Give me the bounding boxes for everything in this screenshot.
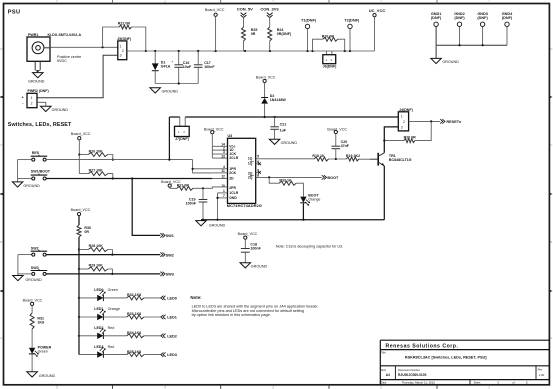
svg-text:of: of <box>512 381 515 385</box>
svg-text:J6(DNF): J6(DNF) <box>323 65 338 69</box>
wire J4 pin2 to RESETn <box>409 120 441 122</box>
svg-text:GROUND: GROUND <box>442 60 459 64</box>
wire TR1 collector to J4 pin3 <box>384 127 398 153</box>
svg-text:CON_5V: CON_5V <box>237 7 253 12</box>
wire 1Q to R18 <box>262 158 315 160</box>
ground symbol SW2 SW3 <box>13 276 42 282</box>
note body <box>192 305 319 317</box>
svg-text:47nF: 47nF <box>341 144 350 148</box>
svg-text:Title: Title <box>381 350 386 354</box>
svg-text:A4: A4 <box>386 373 390 377</box>
resistor R33 <box>127 315 144 319</box>
svg-text:Board_VCC: Board_VCC <box>238 232 258 236</box>
svg-text:100nF: 100nF <box>250 246 261 250</box>
resistor R29 10K <box>79 267 112 274</box>
wire U3 pin4 pin11 stubs <box>212 169 227 173</box>
svg-text:4: 4 <box>164 386 166 389</box>
svg-text:GF1A: GF1A <box>161 64 171 68</box>
test point T1 <box>301 17 317 51</box>
wire SW2 SW3 ground <box>17 255 19 276</box>
svg-text:1: 1 <box>31 96 33 100</box>
resistor R30 label <box>84 226 91 234</box>
capacitor C16 <box>174 51 183 84</box>
wire U3 1Q stub <box>256 158 262 160</box>
junction R29 on SW3 wire <box>111 273 113 275</box>
ground symbol below PWR1 <box>28 73 45 84</box>
net Board_VCC LED rail <box>71 208 91 225</box>
wire PSU ground bus <box>155 82 198 84</box>
capacitor C16 label <box>171 60 192 69</box>
svg-text:U3: U3 <box>228 134 233 138</box>
resistor R22 bypass loop <box>103 25 146 51</box>
svg-text:Date: Date <box>381 380 387 384</box>
svg-text:A: A <box>550 336 552 340</box>
title date <box>381 380 436 384</box>
net Board_VCC at R21 <box>161 180 181 188</box>
svg-text:RJU00JC089-0100: RJU00JC089-0100 <box>398 373 427 377</box>
wire U3 vcc bus stubs <box>212 146 227 158</box>
resistor R20 0R label <box>404 136 417 140</box>
diode D2 label <box>270 94 287 102</box>
capacitor C17 label <box>204 61 215 69</box>
svg-text:GROUND: GROUND <box>281 141 298 145</box>
resistor R25 <box>242 27 246 51</box>
svg-text:Orange: Orange <box>308 197 320 201</box>
svg-text:B: B <box>550 240 552 244</box>
led LED0 label <box>94 288 118 292</box>
junction C19 tap <box>202 187 204 189</box>
led LED3 label <box>94 345 114 349</box>
svg-text:SW1: SW1 <box>166 234 174 238</box>
svg-text:4: 4 <box>164 0 166 4</box>
wire LED1 to port <box>144 316 161 318</box>
resistor R19 2K2 <box>346 157 359 161</box>
ground symbol PSU <box>150 88 178 94</box>
svg-text:BC848CLT1G: BC848CLT1G <box>389 158 412 162</box>
svg-text:B: B <box>0 240 2 244</box>
net Board_VCC at C20 <box>327 127 347 146</box>
wire J7 pin1 stub <box>179 117 181 126</box>
svg-text:0R: 0R <box>251 32 256 36</box>
ground symbol C21 <box>269 139 297 145</box>
ic U3 right pin numbers <box>257 155 259 178</box>
wire logic ground rail <box>201 219 384 221</box>
led POWER label <box>38 346 52 354</box>
svg-text:2Q: 2Q <box>248 175 253 179</box>
wire SW2 net <box>46 254 160 256</box>
resistor R31 label <box>37 316 44 324</box>
title company <box>386 344 459 350</box>
off-page CON_3V3 <box>260 7 279 27</box>
led LED2 label <box>94 326 114 330</box>
net Board_VCC pullups RES SW1 <box>71 132 91 174</box>
resistor R35 label <box>127 350 141 354</box>
jumper J4 label <box>399 108 414 112</box>
svg-text:(DNF): (DNF) <box>502 16 513 20</box>
title block frame <box>380 340 549 385</box>
wire PWR2 pin2 to ground <box>37 102 46 106</box>
svg-text:by option link resistors in th: by option link resistors in this schemat… <box>192 313 271 317</box>
resistor R33 1K <box>279 181 296 185</box>
title rev label <box>538 367 545 376</box>
resistor R33 label <box>127 312 141 316</box>
wire R18 to R19 <box>329 158 347 160</box>
svg-text:SW1/BOOT: SW1/BOOT <box>31 170 51 174</box>
svg-text:2: 2 <box>403 120 405 124</box>
svg-text:Green: Green <box>38 349 48 353</box>
ic U3 left pin numbers <box>221 143 225 199</box>
wire RES to U3 1PR 2CK <box>192 160 213 173</box>
wire PWR1 to J5 pin1 <box>50 46 118 48</box>
title size label <box>381 368 390 377</box>
ground symbol logic rail <box>196 221 226 228</box>
svg-text:UC_VCC: UC_VCC <box>369 8 386 13</box>
svg-text:11: 11 <box>221 169 225 173</box>
resistor R32 <box>127 296 144 300</box>
svg-text:Size: Size <box>381 368 387 372</box>
svg-text:(DNF): (DNF) <box>454 16 465 20</box>
capacitor C20 <box>332 146 341 159</box>
resistor R26 0R loop <box>313 37 345 51</box>
connector PWR1 barrel jack <box>27 37 50 72</box>
jumper J5 <box>118 41 127 60</box>
wire U3 pin12 stub <box>212 178 227 180</box>
resistor R31 1K8 <box>30 313 34 329</box>
resistor R24 label <box>277 28 292 36</box>
wire switches ground left <box>17 160 19 182</box>
junction R28 on SW2 wire <box>111 254 113 256</box>
svg-text:3: 3 <box>272 0 274 4</box>
svg-text:GROUND: GROUND <box>251 265 268 269</box>
svg-text:1CLR: 1CLR <box>229 191 238 195</box>
wire GND bus <box>436 44 507 46</box>
svg-text:A: A <box>0 336 2 340</box>
resistor R30 0R <box>77 225 81 237</box>
resistor R24 <box>268 27 272 51</box>
resistor R21 0R label <box>177 184 190 188</box>
svg-text:5: 5 <box>56 386 58 389</box>
switch SW3 <box>18 269 47 275</box>
svg-text:Switches, LEDs, RESET: Switches, LEDs, RESET <box>8 122 72 128</box>
ground symbol switches RES <box>12 182 40 188</box>
resistor R18 1K label <box>312 154 325 158</box>
svg-text:C21: C21 <box>280 122 287 126</box>
off-page CON_5V <box>237 7 253 27</box>
ic U3 output q-bar overlines <box>250 162 254 176</box>
svg-text:100nF: 100nF <box>204 65 215 69</box>
note heading <box>190 295 202 300</box>
wire LED3 to resistor <box>103 354 126 356</box>
resistor R26 10K <box>79 153 113 160</box>
led LED0 <box>79 291 105 302</box>
resistor R20 0R <box>384 139 415 143</box>
resistor R22 label <box>118 22 131 26</box>
led LED1 label <box>94 307 120 311</box>
resistor R21 0R <box>170 186 193 190</box>
svg-text:SW3: SW3 <box>31 266 39 270</box>
capacitor C18 <box>241 249 250 263</box>
net UC_VCC <box>369 8 386 51</box>
section label Switches LEDs RESET <box>8 122 72 128</box>
port RESETn <box>440 119 462 124</box>
wire U3 2Qbar out <box>256 176 322 178</box>
wire R19 to TR1 base <box>359 158 370 160</box>
junction R26 on RES wire <box>112 159 114 161</box>
led BOOT label <box>308 194 320 202</box>
switch SW3 label <box>31 266 39 270</box>
junction C21 on delay net <box>274 116 276 118</box>
resistor R28 10K label <box>89 244 104 248</box>
svg-text:LED1: LED1 <box>167 316 177 320</box>
svg-text:3: 3 <box>272 386 274 389</box>
svg-text:KLDX-SMT2-0202-A: KLDX-SMT2-0202-A <box>48 33 82 37</box>
junction R22 to rail <box>145 50 147 52</box>
svg-text:1Q: 1Q <box>248 157 253 161</box>
wire 2Qbar to R33 <box>269 177 279 183</box>
wire reset delay net <box>185 117 398 126</box>
svg-text:LED2: LED2 <box>167 334 177 338</box>
svg-text:Orange: Orange <box>108 307 120 311</box>
jumper J7 label <box>175 137 190 141</box>
svg-text:10uF: 10uF <box>183 65 192 69</box>
ic U3 right pin names <box>248 157 253 180</box>
wire SW1 net to U3 2D <box>46 177 212 179</box>
wire U3 1CLR GND to rail <box>216 193 227 220</box>
wire RES to J7 net <box>169 117 179 160</box>
svg-text:13: 13 <box>221 154 225 158</box>
svg-text:1: 1 <box>488 386 490 389</box>
port BOOT <box>322 175 339 180</box>
svg-text:+: + <box>171 60 173 64</box>
note C18 <box>276 245 343 249</box>
connector PWR2 label <box>28 89 50 93</box>
switch RES label <box>32 151 40 155</box>
junction R27 on SW1 wire <box>112 177 114 179</box>
svg-text:GROUND: GROUND <box>52 108 69 112</box>
resistor R35 <box>127 353 144 357</box>
svg-text:T2(DNF): T2(DNF) <box>344 17 360 22</box>
ground symbol C18 <box>240 263 267 269</box>
svg-text:Note: C18 is decoupling capaci: Note: C18 is decoupling capacitor for U3… <box>276 245 343 249</box>
capacitor C20 label <box>341 140 350 148</box>
svg-text:GND: GND <box>229 196 237 200</box>
svg-text:CON_3V3: CON_3V3 <box>260 7 279 12</box>
wire LED0 to resistor <box>103 297 126 299</box>
diode D1 <box>152 51 159 84</box>
wire LED1 to resistor <box>103 316 126 318</box>
svg-text:Red: Red <box>108 345 115 349</box>
wire BOOT led to gnd rail <box>302 203 304 219</box>
svg-text:2CK: 2CK <box>229 171 236 175</box>
title label <box>381 350 386 354</box>
svg-text:(DNF): (DNF) <box>477 16 488 20</box>
capacitor C18 label <box>250 243 261 251</box>
svg-text:2: 2 <box>380 386 382 389</box>
jumper J5 label <box>117 37 132 41</box>
svg-text:2: 2 <box>380 0 382 4</box>
svg-text:Note:: Note: <box>190 295 202 300</box>
svg-text:T1(DNF): T1(DNF) <box>301 17 317 22</box>
resistor R29 10K label <box>89 264 104 268</box>
svg-text:PWR2 (DNF): PWR2 (DNF) <box>28 89 50 93</box>
svg-text:LED0: LED0 <box>167 297 177 301</box>
wire SW1 tap <box>132 179 160 236</box>
svg-text:Green: Green <box>108 288 118 292</box>
svg-text:1: 1 <box>120 45 122 49</box>
svg-text:Sheet: Sheet <box>474 380 481 384</box>
port SW1 <box>160 233 174 238</box>
ic U3 left pin names <box>229 144 238 200</box>
ground symbol GND bus <box>431 58 459 64</box>
wire TR1 emitter <box>383 166 385 220</box>
svg-text:2CLR: 2CLR <box>229 156 238 160</box>
svg-text:RESETn: RESETn <box>446 120 462 124</box>
svg-text:2: 2 <box>31 101 33 105</box>
led POWER <box>29 348 39 357</box>
connector PWR1 label <box>28 33 81 37</box>
wire LED feed vertical <box>78 237 80 355</box>
switch SW1/BOOT <box>18 174 48 180</box>
diode D1 label <box>161 60 171 68</box>
svg-text:J7(DNF): J7(DNF) <box>175 137 190 141</box>
wire LED3 to port <box>144 354 161 356</box>
svg-text:SW3: SW3 <box>166 273 174 277</box>
test point T2 <box>344 17 360 51</box>
net Board_VCC at D2 <box>256 75 276 97</box>
section label PSU <box>8 9 21 15</box>
svg-text:2: 2 <box>122 49 124 53</box>
led LED2 <box>79 328 105 339</box>
main 5V rail <box>127 50 375 52</box>
net Board_VCC at U3 <box>204 128 224 159</box>
port LED0 <box>161 296 177 301</box>
svg-text:PSU: PSU <box>8 9 21 15</box>
title docnum label <box>398 368 427 377</box>
capacitor C21 <box>270 117 279 139</box>
switch SW2 <box>18 250 47 256</box>
svg-text:Renesas Solutions Corp.: Renesas Solutions Corp. <box>386 344 459 350</box>
op-amp U3 label <box>228 134 233 138</box>
resistor R28 10K <box>79 248 112 255</box>
ground symbol POWER led <box>27 372 56 378</box>
capacitor C19 <box>199 188 208 219</box>
svg-text:3: 3 <box>120 54 122 58</box>
svg-text:GROUND: GROUND <box>39 374 56 378</box>
no-connect U3 pin6 <box>256 162 261 165</box>
diode D2 <box>261 98 268 118</box>
svg-text:1N4148W: 1N4148W <box>270 98 287 102</box>
net Board_VCC at power led <box>23 298 43 313</box>
svg-text:1uF: 1uF <box>280 128 287 132</box>
wire LED2 to resistor <box>103 335 126 337</box>
resistor R25 label <box>251 28 258 36</box>
transistor TR1 label <box>389 154 412 162</box>
jumper J4 <box>398 112 408 131</box>
svg-text:Board_VCC: Board_VCC <box>71 132 91 136</box>
no-connect U3 pin9 <box>256 171 261 174</box>
svg-text:Red: Red <box>108 326 115 330</box>
wire GND bus down <box>435 45 437 58</box>
svg-text:GROUND: GROUND <box>25 278 42 282</box>
svg-text:3: 3 <box>401 125 403 129</box>
wire R31 to POWER led <box>31 329 33 348</box>
svg-text:100nF: 100nF <box>186 202 197 206</box>
resistor R18 1K <box>314 157 328 161</box>
led BOOT <box>300 197 310 206</box>
svg-text:Board_VCC: Board_VCC <box>205 8 225 12</box>
resistor R34 <box>127 334 144 338</box>
wire LED0 to port <box>144 297 161 299</box>
junction D2 on delay net <box>264 116 266 118</box>
svg-text:1: 1 <box>401 115 403 119</box>
jumper J6 <box>323 51 336 64</box>
svg-text:LED3: LED3 <box>167 353 177 357</box>
capacitor C17 <box>194 51 203 84</box>
svg-text:+: + <box>22 95 24 99</box>
wire POWER led to ground <box>31 354 33 371</box>
svg-text:GROUND: GROUND <box>209 223 226 227</box>
resistor R34 label <box>127 331 141 335</box>
resistor R33 1K label <box>279 179 292 183</box>
svg-text:5: 5 <box>56 0 58 4</box>
resistor R32 label <box>127 293 141 297</box>
junction pullup R26 <box>78 153 80 155</box>
svg-text:Thursday, March 11, 2010: Thursday, March 11, 2010 <box>402 381 436 385</box>
svg-text:RES: RES <box>32 151 40 155</box>
connector PWR2 <box>22 93 37 107</box>
svg-text:Rev: Rev <box>538 367 543 371</box>
svg-text:12: 12 <box>221 175 225 179</box>
port SW2 <box>160 252 174 257</box>
svg-text:5VDC: 5VDC <box>57 59 67 63</box>
wire LED2 to port <box>144 335 161 337</box>
switch SW1 label <box>31 170 51 174</box>
net Board_VCC at C18 <box>238 232 258 248</box>
svg-text:2D: 2D <box>229 177 234 181</box>
port LED3 <box>161 352 177 357</box>
wire R33 to BOOT led <box>296 183 303 196</box>
ic U3 body <box>228 138 256 203</box>
switch RES <box>18 155 48 161</box>
capacitor C21 label <box>280 122 287 132</box>
ic U3 part number <box>227 203 262 208</box>
resistor R26 10K label <box>89 149 104 153</box>
svg-text:1.00: 1.00 <box>539 373 545 377</box>
test points GND1-GND4 <box>431 12 513 45</box>
svg-text:SW2: SW2 <box>166 253 174 257</box>
svg-text:5: 5 <box>257 155 259 159</box>
svg-text:1K8: 1K8 <box>37 321 44 325</box>
svg-text:MC74HC74ADR2G: MC74HC74ADR2G <box>227 203 262 208</box>
svg-text:Board_VCC: Board_VCC <box>71 208 91 212</box>
jumper J7 <box>175 126 190 136</box>
port LED2 <box>161 334 177 339</box>
transistor TR1 <box>370 153 384 166</box>
title text <box>405 355 487 359</box>
junction R20 at TR1 collector <box>383 140 385 142</box>
resistor R27 10K <box>79 172 113 179</box>
svg-text:BOOT: BOOT <box>327 176 339 180</box>
resistor R27 10K label <box>89 168 104 172</box>
switch SW2 label <box>31 247 39 251</box>
svg-text:Board_VCC: Board_VCC <box>23 298 43 302</box>
ground symbol at PWR2 <box>41 106 69 112</box>
svg-text:GROUND: GROUND <box>23 184 40 188</box>
svg-text:GROUND: GROUND <box>28 79 45 83</box>
net Board_VCC at rail <box>205 8 225 51</box>
wire R21 to U3 2PR <box>193 187 228 188</box>
led LED3 <box>79 347 105 358</box>
